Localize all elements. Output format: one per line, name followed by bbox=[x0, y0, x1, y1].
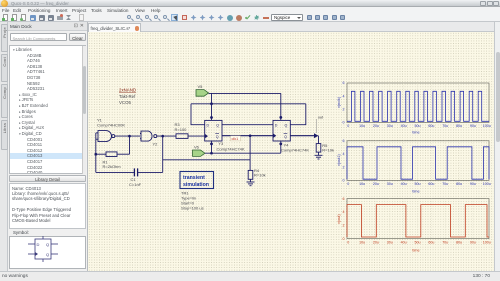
svg-text:20u: 20u bbox=[373, 124, 379, 128]
wire bus2 to Y3 D input bbox=[191, 104, 205, 125]
svg-text:2xNAND: 2xNAND bbox=[119, 88, 136, 93]
node dot Y4 preset bbox=[280, 116, 282, 118]
svg-text:v(nclk): v(nclk) bbox=[337, 96, 341, 108]
svg-text:Q: Q bbox=[216, 124, 219, 128]
wire down to R4 bbox=[249, 136, 251, 171]
svg-text:R=100: R=100 bbox=[175, 127, 188, 132]
svg-text:50u: 50u bbox=[415, 240, 421, 244]
svg-text:20u: 20u bbox=[373, 240, 379, 244]
x tick labels plot3 bbox=[347, 240, 491, 244]
y tick labels plot3 bbox=[343, 197, 345, 241]
svg-text:time: time bbox=[412, 248, 419, 252]
wire Y4 clear drop bbox=[280, 144, 282, 153]
svg-text:10u: 10u bbox=[359, 124, 365, 128]
wire Y3 Q to Y4 D bbox=[222, 124, 273, 126]
node junction R1 tap bbox=[129, 135, 131, 137]
svg-text:time: time bbox=[412, 190, 419, 194]
svg-text:30u: 30u bbox=[387, 124, 393, 128]
svg-text:10u: 10u bbox=[359, 240, 365, 244]
svg-text:100u: 100u bbox=[483, 240, 491, 244]
svg-text:Stop=100 us: Stop=100 us bbox=[181, 206, 204, 211]
svg-text:D: D bbox=[275, 124, 278, 128]
main dock panel bbox=[8, 22, 88, 271]
waveform out1 bbox=[347, 147, 489, 179]
svg-text:VCO5: VCO5 bbox=[119, 100, 132, 105]
wire input tie vertical bbox=[95, 133, 97, 173]
svg-text:Comp74HC00K: Comp74HC00K bbox=[97, 122, 125, 127]
svg-text:30u: 30u bbox=[387, 182, 393, 186]
wire V6 up to Y3 clear bbox=[211, 144, 213, 153]
svg-text:time: time bbox=[412, 131, 419, 135]
svg-text:out: out bbox=[318, 116, 324, 120]
menu bar bbox=[0, 7, 500, 13]
svg-text:transient: transient bbox=[183, 175, 205, 181]
wire Y4 Q feedback up to bus2 bbox=[290, 104, 306, 125]
svg-text:simulation: simulation bbox=[183, 182, 209, 188]
waveform out red bbox=[347, 205, 489, 237]
svg-text:4: 4 bbox=[343, 94, 345, 98]
schematic + plots SVG overlay bbox=[88, 22, 500, 271]
nand gate Y2 bbox=[140, 131, 158, 146]
svg-text:D: D bbox=[37, 242, 40, 247]
plot 1 (clock) bbox=[337, 81, 491, 134]
waveform clock bbox=[347, 91, 489, 121]
svg-text:70u: 70u bbox=[442, 182, 448, 186]
node label out bbox=[317, 116, 325, 133]
wire drop to Y4 preset bbox=[280, 93, 282, 117]
wire Y4 out with arrow bbox=[290, 135, 314, 137]
transient simulation block bbox=[180, 172, 214, 211]
svg-text:0: 0 bbox=[343, 179, 345, 183]
svg-text:70u: 70u bbox=[442, 124, 448, 128]
x tick labels plot1 bbox=[347, 124, 491, 128]
svg-text:V6: V6 bbox=[194, 144, 200, 149]
svg-text:V5: V5 bbox=[198, 84, 204, 89]
svg-text:0: 0 bbox=[347, 182, 349, 186]
wire Y1 out to Y2 in bbox=[115, 135, 140, 137]
svg-text:80u: 80u bbox=[456, 124, 462, 128]
svg-text:100u: 100u bbox=[483, 124, 491, 128]
svg-text:60u: 60u bbox=[428, 240, 434, 244]
ground R4 bbox=[247, 182, 255, 186]
resistor R3 bbox=[175, 122, 205, 138]
svg-text:R=10k: R=10k bbox=[254, 173, 266, 178]
svg-text:0: 0 bbox=[343, 237, 345, 241]
svg-text:10u: 10u bbox=[359, 182, 365, 186]
node dot Y3 preset bbox=[211, 117, 213, 119]
flip-flop U Y3 (74HC74) bbox=[205, 118, 245, 152]
svg-text:Comp74HC74K: Comp74HC74K bbox=[281, 147, 309, 152]
svg-text:Q: Q bbox=[46, 252, 49, 257]
annotation text block bbox=[119, 88, 136, 106]
status bar bbox=[0, 271, 500, 281]
flip-flop U Y4 (74HC74) bbox=[273, 117, 309, 152]
digital source V6 bbox=[193, 144, 206, 156]
svg-text:60u: 60u bbox=[428, 124, 434, 128]
svg-text:0: 0 bbox=[347, 124, 349, 128]
svg-text:6: 6 bbox=[343, 139, 345, 143]
plot frame 1 bbox=[347, 83, 489, 122]
bus2: D feedback line bbox=[191, 103, 306, 105]
node junction R4 tap bbox=[249, 135, 251, 137]
plot 3 (out, red) bbox=[337, 197, 491, 253]
node junction C1 feedback tap bbox=[162, 135, 164, 137]
resistor R1 bbox=[95, 136, 130, 169]
bus1: set line from V5 bbox=[209, 92, 281, 94]
svg-text:4: 4 bbox=[343, 210, 345, 214]
title bar bbox=[0, 0, 500, 7]
svg-text:Q: Q bbox=[284, 135, 287, 139]
svg-text:6: 6 bbox=[343, 81, 345, 85]
svg-text:40u: 40u bbox=[401, 240, 407, 244]
svg-text:Comp74HC74K: Comp74HC74K bbox=[217, 146, 245, 151]
svg-text:Q: Q bbox=[216, 135, 219, 139]
svg-text:50u: 50u bbox=[415, 124, 421, 128]
wire Y2 out to R3 bbox=[157, 135, 176, 137]
svg-text:Takt-Ref: Takt-Ref bbox=[119, 94, 136, 99]
svg-text:40u: 40u bbox=[401, 182, 407, 186]
svg-text:100u: 100u bbox=[483, 182, 491, 186]
svg-text:Q: Q bbox=[285, 124, 288, 128]
wire C1 feedback vertical bbox=[162, 136, 164, 172]
digital source V5 bbox=[196, 84, 209, 96]
x tick labels plot2 bbox=[347, 182, 491, 186]
svg-text:R=10k: R=10k bbox=[322, 148, 334, 153]
left vertical tab strip bbox=[0, 22, 8, 271]
plot frame 3 bbox=[347, 199, 489, 239]
y tick labels plot1 bbox=[343, 81, 345, 124]
document tab bar bbox=[88, 22, 500, 32]
svg-text:2: 2 bbox=[343, 165, 345, 169]
node dot bus crossing bbox=[211, 103, 213, 105]
svg-text:2: 2 bbox=[343, 107, 345, 111]
svg-text:6: 6 bbox=[343, 197, 345, 201]
svg-text:90u: 90u bbox=[470, 124, 476, 128]
capacitor C1 bbox=[96, 168, 163, 187]
svg-text:70u: 70u bbox=[442, 240, 448, 244]
svg-text:50u: 50u bbox=[415, 182, 421, 186]
lower bus bbox=[163, 159, 250, 161]
nand gate Y1 bbox=[96, 117, 126, 141]
svg-text:80u: 80u bbox=[456, 182, 462, 186]
dock symbol preview (flip-flop) bbox=[18, 235, 70, 263]
svg-text:90u: 90u bbox=[470, 240, 476, 244]
svg-text:C=1nF: C=1nF bbox=[129, 182, 142, 187]
svg-text:v(out): v(out) bbox=[337, 214, 341, 224]
svg-text:30u: 30u bbox=[387, 240, 393, 244]
wire label clk (red) bbox=[231, 136, 241, 141]
svg-text:80u: 80u bbox=[456, 240, 462, 244]
svg-text:v(out1): v(out1) bbox=[337, 153, 341, 166]
svg-text:4: 4 bbox=[343, 152, 345, 156]
svg-text:0: 0 bbox=[343, 121, 345, 125]
svg-text:R=2kOhm: R=2kOhm bbox=[103, 164, 122, 169]
svg-text:20u: 20u bbox=[373, 182, 379, 186]
plot frame 2 bbox=[347, 141, 489, 181]
svg-text:clk1: clk1 bbox=[232, 137, 239, 141]
plot 2 (out1) bbox=[337, 139, 491, 194]
wire V5 drop to Y3 preset bbox=[211, 93, 213, 117]
resistor R4 bbox=[248, 168, 265, 182]
wire Y3 Qbar to Y4 clock bbox=[222, 135, 273, 137]
svg-text:0: 0 bbox=[347, 240, 349, 244]
y tick labels plot2 bbox=[343, 139, 345, 183]
node dot Y3 clear bbox=[211, 143, 213, 145]
svg-text:Q: Q bbox=[46, 242, 49, 247]
svg-text:90u: 90u bbox=[470, 182, 476, 186]
svg-text:Y2: Y2 bbox=[153, 141, 159, 146]
svg-text:D: D bbox=[207, 124, 210, 128]
schematic canvas bbox=[88, 32, 494, 271]
ground R5 bbox=[315, 155, 323, 159]
svg-text:2: 2 bbox=[343, 224, 345, 228]
toolbar bbox=[0, 13, 500, 22]
svg-text:60u: 60u bbox=[428, 182, 434, 186]
resistor R5 bbox=[316, 136, 334, 156]
clear bus from V6 bbox=[205, 152, 281, 154]
svg-text:40u: 40u bbox=[401, 124, 407, 128]
